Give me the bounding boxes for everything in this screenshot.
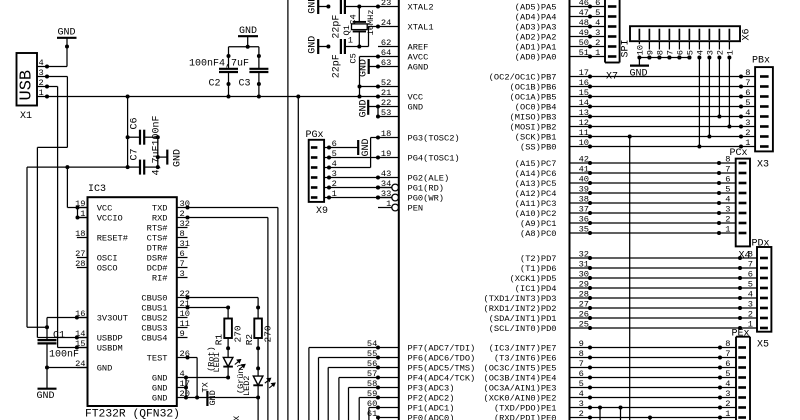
svg-text:18: 18 [381,129,391,139]
LED1 red TX [227,338,229,357]
svg-text:3: 3 [706,50,716,55]
wire ADC fan to PF [368,408,370,420]
svg-text:30: 30 [579,270,589,280]
ground symbol right of C7 [157,137,159,167]
wire PB row [590,126,741,128]
svg-text:9: 9 [646,50,656,55]
wire PB row [590,136,741,138]
wire X6 pin3 to PB1 [708,58,710,137]
svg-text:6: 6 [595,0,600,8]
svg-text:36: 36 [579,215,589,225]
svg-text:5: 5 [745,98,750,108]
svg-text:49: 49 [579,28,589,38]
svg-text:PG1(RD): PG1(RD) [408,184,445,194]
ATmega left PF pin stubs [378,347,399,349]
svg-text:12: 12 [579,118,589,128]
svg-text:270: 270 [232,325,243,342]
svg-text:(A8)PC0: (A8)PC0 [520,229,557,239]
svg-text:51: 51 [579,48,589,58]
svg-text:5: 5 [748,280,753,290]
svg-text:(TXD/PDO)PE1: (TXD/PDO)PE1 [494,404,557,414]
svg-text:(AD5)PA5: (AD5)PA5 [515,3,557,13]
svg-text:PF6(ADC6/TDO): PF6(ADC6/TDO) [408,354,476,364]
wire PD row [590,257,740,259]
capacitor C4 22pF [318,6,328,8]
svg-text:3: 3 [39,68,44,78]
wire PD row [590,327,740,329]
svg-text:3V3OUT: 3V3OUT [97,314,128,324]
wire TEST to ground [188,357,198,359]
svg-text:R2: R2 [244,334,255,346]
svg-text:27: 27 [579,300,589,310]
wire PE row [590,397,720,399]
capacitor C7 4.7uF [128,166,140,168]
ATmega left pin stubs and numbers [378,6,399,8]
svg-text:DCD#: DCD# [147,264,168,274]
svg-text:PF7(ADC7/TDI): PF7(ADC7/TDI) [408,344,476,354]
ground symbol at X9 pin6 [329,147,358,149]
svg-text:4: 4 [696,50,706,55]
svg-text:1: 1 [726,50,736,55]
svg-text:64: 64 [381,48,391,58]
capacitor C6 100nF [127,97,129,168]
svg-text:29: 29 [579,280,589,290]
svg-text:X3: X3 [757,160,769,171]
wire PB row [590,76,741,78]
svg-text:C7: C7 [130,148,141,160]
wire PD row [590,307,740,309]
wire X9 pin3 to PG2 [329,177,378,179]
svg-text:3: 3 [595,28,600,38]
wire RXD to bottom edge [188,217,268,219]
wire PE row [590,367,720,369]
svg-text:(MISO)PB3: (MISO)PB3 [510,113,557,123]
capacitor C1 100nF at 3V3OUT [47,317,88,319]
svg-text:100nF: 100nF [189,58,219,69]
svg-text:5: 5 [725,369,730,379]
svg-text:32: 32 [579,250,589,260]
svg-text:31: 31 [579,260,589,270]
svg-text:(OC1A)PB5: (OC1A)PB5 [510,93,557,103]
svg-text:RI#: RI# [152,274,168,284]
wire PE row [590,347,720,349]
FT232 right pin stubs and numbers [177,207,188,209]
svg-text:7: 7 [725,165,730,175]
svg-text:1: 1 [595,48,600,58]
ground symbol at X6 pin10 [638,58,640,66]
svg-text:11: 11 [579,128,589,138]
wire FT232 GND pin24 to ground [47,367,88,369]
svg-text:1: 1 [39,88,44,98]
svg-text:(A15)PC7: (A15)PC7 [515,159,557,169]
svg-text:IC3: IC3 [88,184,106,195]
svg-text:38: 38 [579,195,589,205]
wire crystal to XTAL1 [359,46,368,48]
svg-text:(IC1)PD4: (IC1)PD4 [515,284,557,294]
connector X7 [604,0,606,63]
svg-text:11: 11 [180,319,190,329]
svg-text:(OC2/OC1C)PB7: (OC2/OC1C)PB7 [489,73,557,83]
svg-text:CBUS0: CBUS0 [141,294,167,304]
svg-text:2: 2 [180,209,185,219]
svg-text:PBx: PBx [752,56,770,67]
wire USB pin2 down to USBDM [47,86,58,88]
svg-text:4: 4 [748,290,753,300]
svg-text:23: 23 [381,0,391,8]
svg-text:CBUS3: CBUS3 [141,324,167,334]
svg-text:4: 4 [725,379,730,389]
svg-text:PF4(ADC4/TCK): PF4(ADC4/TCK) [408,374,476,384]
svg-text:TEST: TEST [147,354,168,364]
svg-text:2: 2 [745,128,750,138]
wire ADC fan to PF [348,388,350,420]
svg-text:13: 13 [579,108,589,118]
svg-text:(XCK0/AIN0)PE2: (XCK0/AIN0)PE2 [484,394,557,404]
svg-text:GND: GND [408,103,424,113]
svg-text:VCCIO: VCCIO [97,214,123,224]
wire FT232 GND pins 4 17 20 tied [185,378,187,398]
svg-text:DTR#: DTR# [147,244,168,254]
svg-text:7: 7 [180,259,185,269]
svg-text:VCC: VCC [97,204,113,214]
svg-text:CBUS4: CBUS4 [141,334,167,344]
svg-text:8: 8 [745,68,750,78]
svg-text:AREF: AREF [408,43,429,53]
wire PC row [590,172,719,174]
svg-text:DSR#: DSR# [147,254,168,264]
svg-text:9: 9 [579,339,584,349]
svg-text:8: 8 [579,349,584,359]
wire PE row [590,377,720,379]
svg-text:OSCI: OSCI [97,254,118,264]
svg-text:C5: C5 [349,53,359,63]
ATmega inverted pins PG1 PG0 PEN [378,187,392,189]
svg-text:100nF: 100nF [151,115,162,145]
wire PB row [590,116,741,118]
svg-text:(OC0)PB4: (OC0)PB4 [515,103,557,113]
svg-text:CTS#: CTS# [147,234,168,244]
svg-text:1: 1 [386,199,391,209]
svg-text:48: 48 [579,18,589,28]
svg-text:(SCK)PB1: (SCK)PB1 [515,133,557,143]
svg-text:8: 8 [656,50,666,55]
svg-text:USB: USB [18,70,37,101]
svg-text:C4: C4 [349,14,359,24]
wire X9 pin1 to PG0 [329,197,391,199]
wire CBUS1 to R1 [188,307,229,309]
svg-text:X9: X9 [316,206,328,217]
svg-text:5: 5 [579,379,584,389]
svg-text:GND: GND [152,384,168,394]
wire PD row [590,317,740,319]
svg-text:22: 22 [381,98,391,108]
svg-text:PCx: PCx [730,148,748,159]
svg-text:21: 21 [381,88,391,98]
svg-text:FT232R (QFN32): FT232R (QFN32) [85,409,180,420]
svg-text:1: 1 [745,138,750,148]
wire ADC fan to PF [358,398,360,420]
svg-text:100nF: 100nF [49,350,79,361]
svg-text:33: 33 [381,189,391,199]
wire CBUS0 to R2 [188,297,259,299]
svg-text:PF3(ADC3): PF3(ADC3) [408,384,455,394]
wire PB row [590,96,741,98]
svg-text:62: 62 [381,38,391,48]
svg-text:3: 3 [725,205,730,215]
svg-text:RX: RX [232,416,242,420]
LED2 green RX [257,338,259,376]
svg-text:(IC3/INT7)PE7: (IC3/INT7)PE7 [489,344,557,354]
svg-text:(SDA/INT1)PD1: (SDA/INT1)PD1 [489,314,557,324]
svg-text:(T2)PD7: (T2)PD7 [520,254,557,264]
wire PC row [590,192,719,194]
wire X9 pin2 to PG1 [329,187,391,189]
svg-text:28: 28 [579,290,589,300]
wire ADC fan to PF [338,378,340,420]
svg-text:35: 35 [579,225,589,235]
svg-text:24: 24 [381,18,391,28]
wire X6 pin1 to PB2 [728,58,730,127]
svg-text:C2: C2 [209,79,221,90]
svg-text:4: 4 [579,389,584,399]
svg-text:14: 14 [75,329,85,339]
svg-text:PF1(ADC1): PF1(ADC1) [408,404,455,414]
svg-text:41: 41 [579,165,589,175]
svg-text:PG4(TOSC1): PG4(TOSC1) [408,154,460,164]
ground symbol at FT232 GND pins [206,391,208,406]
svg-text:(A13)PC5: (A13)PC5 [515,179,557,189]
wire PC row [590,162,719,164]
svg-text:(XCK1)PD5: (XCK1)PD5 [510,274,557,284]
svg-text:14: 14 [579,98,589,108]
svg-text:25: 25 [579,320,589,330]
svg-text:C6: C6 [130,117,141,129]
svg-text:1: 1 [80,209,85,219]
svg-text:8: 8 [725,339,730,349]
wire X9 pin5 to PG4 [329,157,378,159]
svg-text:X5: X5 [757,340,769,351]
svg-text:(A14)PC6: (A14)PC6 [515,169,557,179]
wire PE row [590,417,720,419]
svg-text:Q1: Q1 [342,25,352,35]
wire PC row [590,182,719,184]
svg-text:4: 4 [595,18,600,28]
svg-text:GND: GND [152,374,168,384]
svg-text:(OC3C/INT5)PE5: (OC3C/INT5)PE5 [484,364,557,374]
svg-text:(MOSI)PB2: (MOSI)PB2 [510,123,557,133]
svg-text:15: 15 [75,339,85,349]
svg-text:(AD1)PA1: (AD1)PA1 [515,43,557,53]
svg-text:10: 10 [579,138,589,148]
svg-text:53: 53 [381,108,391,118]
svg-text:32: 32 [180,219,190,229]
svg-text:GND: GND [37,391,55,402]
svg-text:LED2: LED2 [242,376,252,396]
svg-text:PF5(ADC5/TMS): PF5(ADC5/TMS) [408,364,476,374]
wire PC row [590,212,719,214]
svg-text:(AD2)PA2: (AD2)PA2 [515,33,557,43]
svg-text:(AD0)PA0: (AD0)PA0 [515,53,557,63]
wire ADC fan to PF [378,418,380,420]
svg-text:4: 4 [745,108,750,118]
svg-text:3: 3 [579,399,584,409]
svg-text:5: 5 [595,8,600,18]
svg-text:USBDM: USBDM [97,344,123,354]
svg-text:7: 7 [745,78,750,88]
wire ADC fan to PF [327,368,329,420]
wire X6 pin2 to PB3 [718,58,720,117]
IC ATmega128 main body [398,0,400,420]
FT232 left pin stubs and numbers [77,207,88,209]
svg-text:CBUS2: CBUS2 [141,314,167,324]
wire VCC branch to C6 C7 and FT232 VCC VCCIO [27,166,128,168]
ATmega right pin stubs [570,6,591,8]
svg-text:6: 6 [579,369,584,379]
svg-text:8: 8 [748,250,753,260]
svg-text:8: 8 [725,155,730,165]
svg-text:2: 2 [748,310,753,320]
svg-text:OSCO: OSCO [97,264,118,274]
svg-text:6: 6 [676,50,686,55]
wire PC row [590,222,719,224]
svg-text:6: 6 [748,270,753,280]
svg-text:10: 10 [636,45,646,55]
wire PE row [590,387,720,389]
svg-text:16: 16 [579,78,589,88]
ground symbol below C1 [38,388,57,390]
wire PB1 branch down to bottom edge [629,137,631,420]
wire VCC down to bottom connector [287,0,289,420]
svg-text:7: 7 [725,349,730,359]
wire X6 ground bus pins 10 to 5 [639,57,689,59]
svg-text:16MHz: 16MHz [366,9,376,35]
svg-text:(RXD1/INT2)PD2: (RXD1/INT2)PD2 [484,304,557,314]
svg-text:AVCC: AVCC [408,53,429,63]
svg-text:31: 31 [180,239,190,249]
svg-text:46: 46 [579,0,589,8]
svg-text:SPI: SPI [621,39,632,57]
svg-text:19: 19 [381,149,391,159]
wire PD row [590,277,740,279]
wire X9 pin4 to PG3 [329,167,371,169]
svg-text:22pF: 22pF [331,54,342,78]
svg-text:3: 3 [180,269,185,279]
wire PD row [590,297,740,299]
capacitor C5 22pF [318,46,328,48]
crystal Q1 16MHz [358,7,360,22]
wire ADC fan to PF [318,358,320,420]
svg-text:43: 43 [381,169,391,179]
svg-text:PG0(WR): PG0(WR) [408,194,445,204]
svg-text:6: 6 [745,88,750,98]
svg-text:6: 6 [725,359,730,369]
svg-text:C3: C3 [239,79,251,90]
svg-text:(A10)PC2: (A10)PC2 [515,209,557,219]
wires PE1 PE0 branches to bottom edge [599,408,601,420]
svg-text:26: 26 [579,310,589,320]
svg-text:(SCL/INT0)PD0: (SCL/INT0)PD0 [489,324,557,334]
svg-text:RESET#: RESET# [97,234,128,244]
svg-text:(TXD1/INT3)PD3: (TXD1/INT3)PD3 [484,294,557,304]
wire USB pin4 to GND [66,38,68,67]
svg-text:17: 17 [579,68,589,78]
svg-text:LED1: LED1 [212,352,222,372]
wire X6 pin4 to PB0 [698,58,700,147]
svg-text:3: 3 [725,389,730,399]
wire PE row [590,407,720,409]
svg-text:X1: X1 [20,111,32,122]
svg-text:52: 52 [381,78,391,88]
svg-text:X6: X6 [742,28,753,40]
svg-text:XTAL1: XTAL1 [408,23,434,33]
svg-text:(SS)PB0: (SS)PB0 [520,143,557,153]
wire PB row [590,86,741,88]
svg-text:R1: R1 [214,334,225,346]
svg-text:CBUS1: CBUS1 [141,304,167,314]
svg-text:(A9)PC1: (A9)PC1 [520,219,557,229]
wire PB row [590,146,741,148]
svg-text:(OC3A/AIN1)PE3: (OC3A/AIN1)PE3 [484,384,557,394]
svg-text:GND: GND [630,69,648,80]
svg-text:4,7uF: 4,7uF [151,145,162,175]
svg-text:USBDP: USBDP [97,334,123,344]
wire PE row [590,357,720,359]
svg-text:47: 47 [579,8,589,18]
resistor R1 270 [227,308,229,319]
svg-text:6: 6 [180,249,185,259]
svg-text:PEx: PEx [732,329,750,340]
svg-text:PG3(TOSC2): PG3(TOSC2) [408,134,460,144]
svg-text:7: 7 [579,359,584,369]
svg-text:2: 2 [716,50,726,55]
svg-text:3: 3 [745,118,750,128]
wire PD row [590,287,740,289]
svg-text:PG2(ALE): PG2(ALE) [408,174,450,184]
svg-text:63: 63 [381,58,391,68]
svg-text:18: 18 [75,229,85,239]
svg-text:(T3/INT6)PE6: (T3/INT6)PE6 [494,354,557,364]
svg-text:(T1)PD6: (T1)PD6 [520,264,557,274]
svg-text:28: 28 [75,259,85,269]
svg-text:(AD3)PA3: (AD3)PA3 [515,23,557,33]
svg-text:10: 10 [180,309,190,319]
svg-text:1: 1 [725,409,730,419]
wire PC row [590,202,719,204]
svg-text:2: 2 [579,409,584,419]
svg-text:4: 4 [39,58,44,68]
svg-text:7: 7 [666,50,676,55]
svg-text:4,7uF: 4,7uF [219,58,249,69]
svg-text:37: 37 [579,205,589,215]
svg-text:XTAL2: XTAL2 [408,3,434,13]
wire VCC rail to AVCC and pin52 [359,57,361,97]
svg-text:3: 3 [748,300,753,310]
capacitor C3 4.7uF [258,47,260,69]
wire PC row [590,232,719,234]
svg-text:1: 1 [348,36,353,46]
svg-text:GND: GND [308,0,319,14]
svg-text:9: 9 [180,329,185,339]
svg-text:(OC1B)PB6: (OC1B)PB6 [510,83,557,93]
svg-text:8: 8 [180,229,185,239]
svg-text:7: 7 [748,260,753,270]
svg-text:PF2(ADC2): PF2(ADC2) [408,394,455,404]
svg-text:2: 2 [725,215,730,225]
wire PB row [590,106,741,108]
wire VCC rail from USB pin1 [47,96,378,98]
svg-text:VCC: VCC [408,93,424,103]
svg-text:GND: GND [152,394,168,404]
